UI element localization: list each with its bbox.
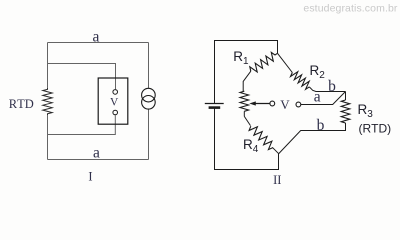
svg-text:a: a (314, 89, 321, 106)
svg-text:a: a (93, 28, 100, 45)
svg-text:estudegratis.com.br: estudegratis.com.br (303, 3, 398, 15)
svg-text:II: II (273, 173, 281, 187)
svg-text:RTD: RTD (9, 97, 34, 111)
svg-text:V: V (110, 96, 119, 108)
svg-text:I: I (88, 169, 92, 183)
svg-text:(RTD): (RTD) (359, 122, 392, 136)
svg-text:b: b (317, 117, 325, 134)
svg-text:b: b (328, 78, 336, 95)
svg-text:a: a (93, 144, 100, 161)
svg-text:V: V (280, 97, 290, 112)
